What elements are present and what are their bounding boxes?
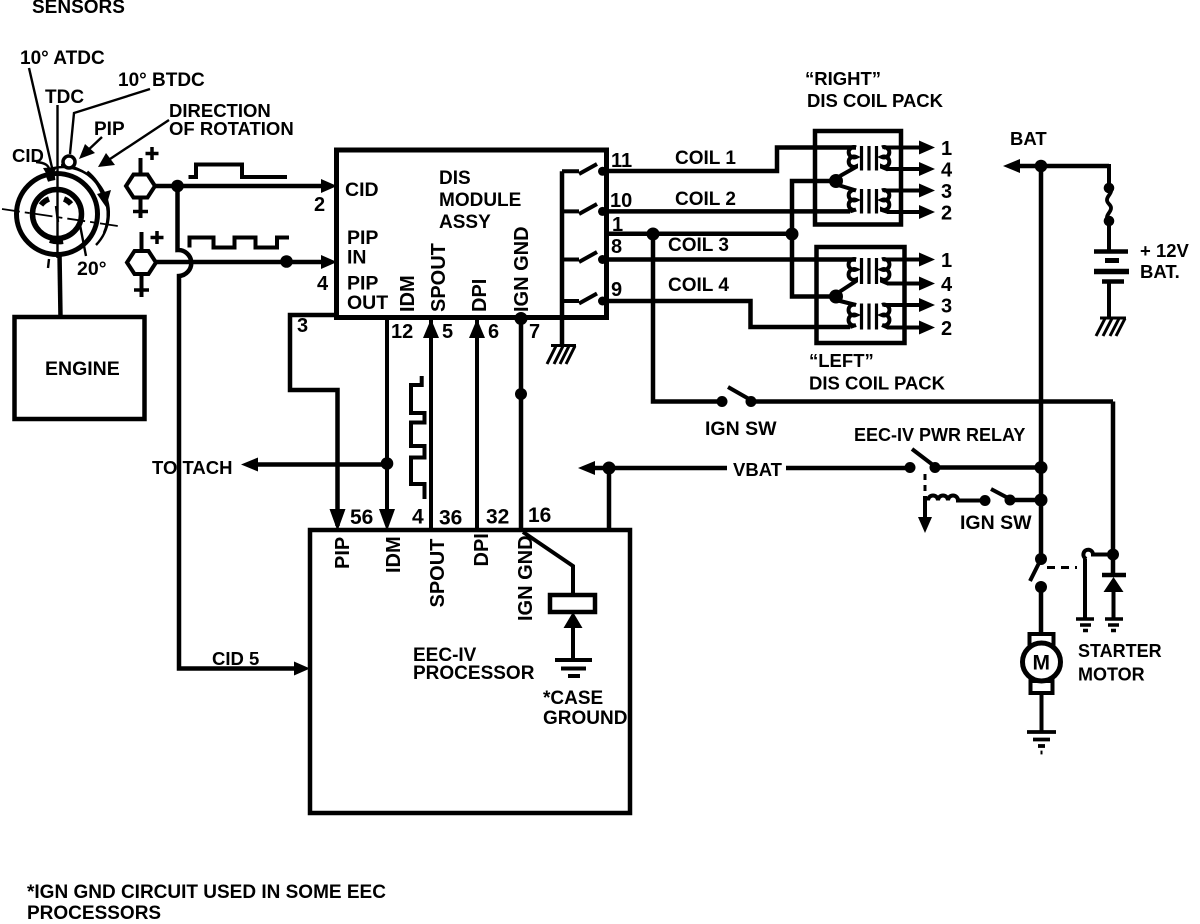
svg-text:MODULE: MODULE xyxy=(439,190,521,211)
svg-text:2: 2 xyxy=(314,194,325,216)
svg-text:GROUND: GROUND xyxy=(543,708,627,729)
wire right vertical from IGN SW to diode xyxy=(1111,402,1116,575)
ground case (3-bar) xyxy=(555,660,592,676)
wheel vane mark bottom xyxy=(50,240,63,241)
tick below wheel xyxy=(48,259,49,268)
EEC-IV processor box U2 xyxy=(310,530,630,813)
svg-text:M: M xyxy=(1033,652,1051,675)
internal switch SW4 (coil 4 driver) xyxy=(562,299,579,303)
svg-text:OF ROTATION: OF ROTATION xyxy=(169,118,294,139)
left pack transformer T4 core xyxy=(862,304,877,330)
svg-text:4: 4 xyxy=(941,274,953,296)
svg-text:SPOUT: SPOUT xyxy=(428,243,450,312)
svg-text:4: 4 xyxy=(941,160,953,182)
svg-text:DIS COIL PACK: DIS COIL PACK xyxy=(809,373,946,394)
svg-text:ENGINE: ENGINE xyxy=(45,358,120,380)
node on IGN GND wire xyxy=(515,388,527,400)
node BAT / main vertical xyxy=(1035,160,1048,173)
ground below solenoid xyxy=(1076,619,1094,631)
node pin1/coil feed branch xyxy=(786,228,799,241)
svg-text:MOTOR: MOTOR xyxy=(1078,665,1145,685)
svg-text:7: 7 xyxy=(529,321,540,343)
right coil pack box xyxy=(815,131,901,225)
left pack transformer T4 secondary xyxy=(882,305,889,328)
node left pack tap xyxy=(829,290,843,304)
right pack transformer T2 secondary xyxy=(882,190,889,212)
svg-text:5: 5 xyxy=(442,321,453,343)
wire COIL 3 (pin 8 to left pack) xyxy=(606,257,856,262)
svg-text:“RIGHT”: “RIGHT” xyxy=(805,68,881,89)
svg-text:CID 5: CID 5 xyxy=(212,648,259,669)
wire VBAT with left arrow xyxy=(591,466,727,471)
wire SPOUT EEC to DIS pin 5 xyxy=(429,320,433,530)
svg-text:8: 8 xyxy=(611,236,622,258)
wire CID from S1 to DIS module xyxy=(155,184,327,189)
CID notch on wheel xyxy=(47,177,55,179)
svg-text:11: 11 xyxy=(611,150,632,172)
node solenoid feed xyxy=(1107,549,1119,561)
right pack transformer T2 primary xyxy=(838,185,856,211)
right pack output 2 xyxy=(887,210,921,214)
right pack transformer T1 secondary xyxy=(882,147,889,169)
relay K1 switch xyxy=(905,462,916,473)
node IGN SW 2 / main vertical xyxy=(1035,494,1048,507)
node pin1/IGN SW branch xyxy=(647,228,660,241)
battery B1 +12V xyxy=(1094,249,1128,254)
switch IGN SW 1 xyxy=(717,396,728,407)
DIS module box U1 xyxy=(337,150,607,318)
wire pin 3 to EEC pin 56 (PIP) xyxy=(290,315,338,526)
wire to starter motor xyxy=(1039,587,1044,636)
svg-text:TO TACH: TO TACH xyxy=(152,457,233,478)
svg-text:ASSY: ASSY xyxy=(439,212,491,233)
wire BAT with left arrow xyxy=(1016,164,1109,169)
svg-text:PIP: PIP xyxy=(94,119,125,140)
svg-text:BAT: BAT xyxy=(1010,128,1047,149)
svg-text:IDM: IDM xyxy=(397,275,419,312)
svg-text:4: 4 xyxy=(317,273,329,295)
wire COIL 2 (pin 10 to right pack) xyxy=(606,209,850,214)
wire IGN SW 1 branch from pin 1 xyxy=(653,234,717,402)
relay K1 actuator dashed link xyxy=(924,474,927,497)
left pack transformer T3 primary xyxy=(840,259,856,291)
ground below motor xyxy=(1027,732,1056,753)
left pack transformer T3 core xyxy=(862,258,877,284)
left pack output 4 xyxy=(887,282,921,286)
svg-text:20°: 20° xyxy=(77,258,107,280)
svg-text:PROCESSOR: PROCESSOR xyxy=(413,663,535,684)
svg-text:BAT.: BAT. xyxy=(1140,261,1180,282)
svg-text:DIS COIL PACK: DIS COIL PACK xyxy=(807,90,944,111)
wire feed to left pack primary taps xyxy=(792,234,830,297)
left pack transformer T4 primary xyxy=(838,301,856,328)
right pack output 4 xyxy=(887,167,921,171)
svg-text:1: 1 xyxy=(941,250,952,272)
wheel dash-dot axis xyxy=(2,209,118,226)
relay coil down arrow xyxy=(923,501,927,520)
wire COIL 1 (pin 11 to right pack) xyxy=(606,148,856,172)
waveform SPOUT square wave xyxy=(411,376,425,499)
node on PIP IN wire xyxy=(280,255,293,268)
internal switch SW3 (coil 3 driver) xyxy=(562,258,579,262)
ground below diode xyxy=(1105,619,1123,631)
node relay / main vertical xyxy=(1035,461,1048,474)
node at DIS pin 7 xyxy=(515,312,528,325)
svg-text:36: 36 xyxy=(439,507,462,530)
diode D1 xyxy=(1102,573,1126,578)
svg-text:32: 32 xyxy=(486,506,509,529)
svg-text:2: 2 xyxy=(941,318,952,340)
leader TDC / crank axis vertical xyxy=(56,105,58,258)
wheel vane mark upper-right xyxy=(64,199,71,204)
ground below battery (hatched) xyxy=(1096,318,1126,336)
arrow CID xyxy=(36,162,49,171)
wire IDM pin 12 to EEC pin 4 xyxy=(385,318,389,525)
waveform PIP single pulse xyxy=(189,165,288,178)
node TO TACH junction xyxy=(381,457,394,470)
svg-text:10° BTDC: 10° BTDC xyxy=(118,70,205,91)
wire DPI EEC to DIS pin 6 xyxy=(475,320,479,530)
svg-text:COIL 4: COIL 4 xyxy=(668,275,729,296)
svg-text:3: 3 xyxy=(941,296,952,318)
wire main battery vertical xyxy=(1039,166,1044,560)
wire feed to right pack primary taps xyxy=(792,181,830,234)
wire COIL 4 (pin 9 to left pack) xyxy=(606,301,850,327)
svg-text:“LEFT”: “LEFT” xyxy=(809,350,874,371)
switch IGN SW 2 xyxy=(980,495,991,506)
svg-text:DIS: DIS xyxy=(439,168,471,189)
wire to fuse xyxy=(1107,164,1111,187)
svg-text:IDM: IDM xyxy=(383,536,405,573)
node on CID wire xyxy=(171,180,184,193)
svg-text:3: 3 xyxy=(941,181,952,203)
svg-text:+ 12V: + 12V xyxy=(1140,240,1190,261)
internal switch SW1 (coil 1 driver) xyxy=(562,169,579,173)
wire PIP IN from S2 to DIS module xyxy=(156,260,327,265)
svg-text:10° ATDC: 10° ATDC xyxy=(20,48,105,69)
svg-text:IGN GND: IGN GND xyxy=(515,535,537,621)
right pack transformer T2 core xyxy=(862,189,877,214)
svg-text:16: 16 xyxy=(528,504,551,527)
svg-text:SPOUT: SPOUT xyxy=(427,539,449,608)
svg-text:*CASE: *CASE xyxy=(543,688,603,709)
svg-text:OUT: OUT xyxy=(347,292,388,314)
starter solenoid coil L1 xyxy=(1083,550,1113,559)
wheel thin outer arc 2 xyxy=(61,165,108,233)
svg-text:COIL 3: COIL 3 xyxy=(668,235,729,256)
svg-text:DPI: DPI xyxy=(469,279,491,312)
svg-text:3: 3 xyxy=(297,315,308,337)
left pack output 1 xyxy=(884,258,921,262)
sensor trigger wheel outer ring xyxy=(17,174,98,255)
wire VBAT down to EEC box xyxy=(607,468,612,530)
wheel thin outer arc 1 xyxy=(53,167,109,245)
wheel center tick xyxy=(56,206,58,222)
left pack transformer T3 secondary xyxy=(882,259,889,283)
starter switch dashed link xyxy=(1047,566,1077,569)
right pack transformer T1 primary xyxy=(840,147,856,176)
fuse F1 xyxy=(1104,183,1115,194)
case ground connector xyxy=(550,595,595,612)
left pack output 3 xyxy=(884,303,921,307)
wheel vane mark upper-left xyxy=(41,199,49,205)
node right pack tap xyxy=(829,174,843,188)
sensor S2 (PIP pickup) xyxy=(127,251,156,274)
svg-text:COIL 2: COIL 2 xyxy=(675,189,736,210)
svg-text:6: 6 xyxy=(488,321,499,343)
svg-text:IGN GND: IGN GND xyxy=(511,226,533,312)
svg-text:2: 2 xyxy=(941,203,952,225)
svg-text:9: 9 xyxy=(611,279,622,301)
wire CID down to EEC (with hop) xyxy=(178,186,298,669)
right pack output 3 xyxy=(884,189,921,193)
svg-text:SENSORS: SENSORS xyxy=(32,0,125,18)
arrow DIRECTION OF ROTATION xyxy=(104,120,169,163)
starter solenoid switch xyxy=(1035,553,1047,565)
svg-text:10: 10 xyxy=(610,190,632,212)
svg-text:DPI: DPI xyxy=(471,533,493,566)
svg-text:CID: CID xyxy=(345,179,379,201)
svg-text:PROCESSORS: PROCESSORS xyxy=(27,903,161,924)
rotation direction arc arrow xyxy=(87,172,103,195)
svg-text:STARTER: STARTER xyxy=(1078,641,1162,661)
leader 10 BTDC xyxy=(70,89,150,154)
left pack output 2 xyxy=(887,326,921,330)
svg-text:IGN SW: IGN SW xyxy=(705,418,777,440)
arrow PIP xyxy=(84,137,102,154)
sensor S1 (CID pickup) xyxy=(126,175,155,198)
waveform PIP IN square wave xyxy=(190,238,290,248)
svg-text:1: 1 xyxy=(941,138,952,160)
leader 20 deg xyxy=(80,225,86,256)
svg-text:IGN SW: IGN SW xyxy=(960,512,1032,534)
internal ground bus xyxy=(560,171,565,345)
svg-text:COIL 1: COIL 1 xyxy=(675,148,736,169)
wire battery to ground xyxy=(1107,281,1111,318)
wire motor to ground xyxy=(1040,693,1044,731)
ground below DIS module (hatched) xyxy=(547,346,576,365)
right pack output 1 xyxy=(884,146,921,150)
leader 10 ATDC xyxy=(29,68,53,172)
sensor trigger wheel inner ring xyxy=(33,190,82,239)
wire pin 1 battery feed xyxy=(606,232,792,237)
svg-text:IN: IN xyxy=(347,247,367,269)
svg-text:PIP: PIP xyxy=(332,537,354,569)
relay K1 coil xyxy=(925,496,985,501)
wire fuse to battery xyxy=(1107,221,1111,250)
internal switch SW2 (coil 2 driver) xyxy=(562,209,579,213)
svg-text:12: 12 xyxy=(391,321,413,343)
wire case ground diagonal xyxy=(523,532,573,595)
node VBAT to EEC xyxy=(603,462,616,475)
svg-text:4: 4 xyxy=(412,506,424,529)
case ground arrow up xyxy=(564,612,583,628)
small PIP pickup circle xyxy=(63,156,75,168)
starter motor M1 xyxy=(1030,634,1054,645)
right pack transformer T1 core xyxy=(862,146,877,171)
ENGINE box xyxy=(15,317,145,419)
svg-text:TDC: TDC xyxy=(45,87,84,108)
svg-text:EEC-IV PWR RELAY: EEC-IV PWR RELAY xyxy=(854,425,1025,445)
svg-text:56: 56 xyxy=(350,506,373,529)
svg-text:*IGN GND CIRCUIT USED IN SOME: *IGN GND CIRCUIT USED IN SOME EEC xyxy=(27,882,386,903)
svg-text:VBAT: VBAT xyxy=(733,459,783,480)
wire IGN GND DIS pin 7 to EEC pin 16 xyxy=(519,318,524,530)
left coil pack box xyxy=(817,247,905,343)
